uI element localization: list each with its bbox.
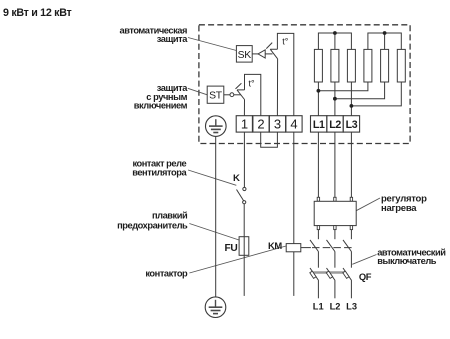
contactor coil KM — [286, 244, 301, 252]
wire KM contact 1 to QF 1 — [317, 252, 319, 268]
leader line to ST — [188, 88, 207, 95]
svg-text:включением: включением — [134, 101, 188, 111]
junction dot group2 — [383, 31, 387, 35]
svg-text:нагрева: нагрева — [381, 203, 417, 214]
svg-text:защита: защита — [157, 34, 189, 44]
tick mark on SK blade — [266, 43, 272, 49]
wire t2 left leg to terminal 1 — [243, 100, 245, 116]
thermal sensor t1 cap — [277, 33, 293, 115]
KM contact 2 blade — [327, 240, 335, 252]
contact triangle of SK — [258, 50, 265, 58]
svg-text:4: 4 — [290, 116, 297, 131]
heating element EK4 — [364, 49, 372, 82]
wire fuse to supply stub — [243, 255, 245, 296]
QF pole 3 blade — [343, 268, 352, 281]
svg-text:2: 2 — [257, 116, 264, 131]
terminal labels L1 L2 L3 — [313, 119, 358, 131]
svg-text:t°: t° — [249, 78, 256, 88]
svg-text:QF: QF — [359, 271, 372, 282]
breaker QF linkage bar — [313, 271, 346, 273]
QF pole 1 loop — [310, 271, 316, 278]
svg-text:L1: L1 — [313, 119, 325, 131]
wire terminal L1 down to regulator — [317, 132, 319, 197]
thermal switch blade of SK circuit — [270, 49, 277, 59]
wire t1 left leg to terminal 3 — [276, 59, 278, 116]
leader line to SK — [188, 38, 236, 51]
wire KM contact 3 to QF 3 — [350, 252, 352, 268]
svg-text:FU: FU — [225, 243, 238, 254]
wire contact K to fuse FU — [243, 204, 245, 237]
thermal switch blade of ST circuit — [237, 90, 245, 100]
wire QF 3 to L3 — [350, 281, 352, 299]
terminal block 1-4 — [236, 116, 302, 132]
ground PE lower — [205, 297, 226, 318]
wire regulator to KM contact 2 — [334, 230, 336, 240]
svg-text:SK: SK — [238, 50, 252, 61]
wire EK5 to phase B bus — [335, 82, 385, 99]
leader line to regulator box — [356, 198, 380, 211]
svg-text:K: K — [233, 173, 240, 184]
contact K upper circle — [243, 187, 246, 190]
wire triangle to switch gap — [265, 53, 272, 55]
wire SK to triangle — [252, 53, 258, 55]
QF pole 2 blade — [327, 268, 336, 281]
wire ST to contact circle — [224, 94, 230, 96]
KM contact 1 blade — [310, 240, 318, 252]
junction dot group1 — [333, 31, 337, 35]
wire EK2 to terminal L2 — [334, 82, 336, 116]
svg-text:L3: L3 — [346, 119, 358, 131]
tick mark on ST blade — [236, 83, 242, 89]
svg-text:KM: KM — [268, 240, 282, 251]
contact K lower circle — [243, 201, 246, 204]
svg-text:1: 1 — [241, 116, 248, 131]
junction dot phase B — [333, 97, 337, 101]
KM contact 3 blade — [343, 240, 351, 252]
leader line to KM coil — [189, 246, 286, 273]
regulator pins bottom — [317, 226, 352, 230]
heating element EK2 — [331, 49, 339, 82]
svg-text:L1: L1 — [313, 301, 324, 311]
QF pole 3 loop — [343, 271, 349, 278]
svg-text:3: 3 — [274, 116, 281, 131]
breaker SK — [236, 46, 252, 63]
thermal sensor t2 cap — [245, 74, 261, 115]
protector ST — [207, 86, 224, 103]
heating element EK1 — [314, 49, 322, 82]
heat regulator box — [314, 201, 356, 225]
wire QF 2 to L2 — [334, 281, 336, 299]
wire EK1 to terminal L1 — [317, 82, 319, 116]
svg-text:плавкий: плавкий — [152, 210, 188, 220]
wire terminal L2 down to regulator — [334, 132, 336, 197]
wire regulator to KM contact 3 — [350, 230, 352, 240]
leader line to FU — [189, 224, 239, 241]
junction dot phase A — [317, 89, 321, 93]
svg-text:9 кВт и 12 кВт: 9 кВт и 12 кВт — [3, 7, 71, 19]
dashed enclosure border — [199, 25, 410, 144]
wire PE upper to PE lower — [215, 136, 217, 296]
junction dot phase C — [350, 104, 354, 108]
wire terminal 4 down to coil KM — [293, 132, 295, 244]
wire terminal 1 down to contact K — [243, 132, 245, 187]
svg-text:предохранитель: предохранитель — [117, 220, 188, 230]
svg-text:выключатель: выключатель — [377, 256, 437, 266]
svg-text:ST: ST — [209, 91, 223, 102]
wire regulator to KM contact 1 — [317, 230, 319, 240]
svg-text:L3: L3 — [346, 301, 357, 311]
terminal block L1-L3 — [311, 116, 360, 132]
svg-text:контактор: контактор — [145, 269, 188, 279]
wire EK3 to terminal L3 — [350, 82, 352, 116]
regulator pins top — [317, 197, 352, 201]
svg-text:t°: t° — [282, 36, 289, 46]
ground PE upper — [206, 116, 227, 137]
QF pole 1 blade — [310, 268, 319, 281]
terminal numbers — [241, 116, 298, 131]
jumper terminal 2 to 3 — [261, 132, 278, 147]
wire QF 1 to L1 — [317, 281, 319, 299]
leader line to contact K — [188, 170, 236, 185]
wire EK6 to phase C bus — [351, 82, 401, 106]
heating element EK5 — [381, 49, 389, 82]
svg-text:L2: L2 — [330, 301, 341, 311]
contact K blade — [237, 190, 245, 202]
svg-text:вентилятора: вентилятора — [132, 168, 187, 178]
leader line to QF — [352, 255, 376, 265]
wire circle to switch gap — [234, 94, 241, 96]
fuse FU — [239, 237, 249, 256]
wire terminal L3 down to regulator — [350, 132, 352, 197]
wire EK4 to phase A bus — [318, 82, 368, 91]
heating element EK3 — [347, 49, 355, 82]
QF pole 2 loop — [326, 271, 332, 278]
star bus group 2 — [368, 33, 401, 49]
wire coil KM to supply stub — [293, 252, 295, 296]
svg-text:L2: L2 — [329, 119, 341, 131]
wire KM contact 2 to QF 2 — [334, 252, 336, 268]
heating element EK6 — [397, 49, 405, 82]
phase labels L1 L2 L3 — [313, 301, 357, 311]
linkage coil KM to contacts — [301, 247, 311, 249]
contact circle of ST — [230, 93, 234, 97]
star bus group 1 — [318, 33, 351, 49]
